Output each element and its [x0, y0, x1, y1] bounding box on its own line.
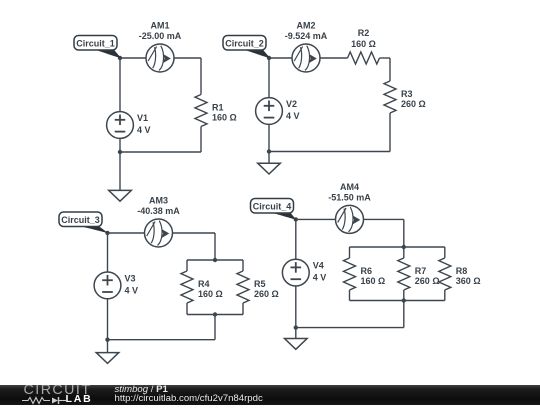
wire — [186, 260, 188, 271]
voltage source V1 — [107, 112, 151, 139]
wire — [173, 232, 216, 234]
CircuitLab logo — [24, 385, 99, 396]
svg-text:4 V: 4 V — [286, 111, 300, 121]
ground — [258, 163, 281, 174]
resistor R1 — [195, 95, 237, 127]
wire — [186, 303, 188, 315]
svg-text:260 Ω: 260 Ω — [415, 276, 440, 286]
wire — [403, 290, 405, 301]
svg-text:AM1: AM1 — [150, 21, 169, 31]
wire — [350, 246, 445, 248]
svg-text:V2: V2 — [286, 99, 297, 109]
wire — [295, 219, 297, 259]
wire — [349, 290, 351, 301]
ground — [96, 353, 119, 364]
svg-text:AM4: AM4 — [340, 182, 359, 192]
wire — [200, 127, 202, 153]
node Circuit_3 anchor — [105, 231, 109, 235]
wire — [403, 301, 405, 328]
node R4R5 top junction — [213, 258, 217, 262]
wire — [187, 314, 243, 316]
node flag Circuit_1 — [74, 36, 121, 59]
wire — [119, 152, 121, 190]
wire — [242, 260, 244, 271]
svg-text:160 Ω: 160 Ω — [198, 289, 223, 299]
LAB text — [66, 395, 93, 405]
wire — [108, 232, 145, 234]
wire — [107, 299, 109, 340]
node V4- junction — [294, 325, 298, 329]
svg-text:-25.00 mA: -25.00 mA — [139, 31, 182, 41]
wire — [296, 218, 336, 220]
svg-text:-9.524 mA: -9.524 mA — [285, 31, 328, 41]
wire — [107, 233, 109, 272]
wire — [269, 57, 292, 59]
node flag Circuit_3 — [59, 212, 108, 233]
svg-text:R7: R7 — [415, 266, 427, 276]
voltage source V3 — [94, 272, 138, 299]
voltage source V4 — [282, 259, 326, 286]
wire — [349, 247, 351, 258]
svg-text:4 V: 4 V — [125, 285, 139, 295]
node Circuit_2 anchor — [267, 56, 271, 60]
resistor R5 — [237, 271, 279, 303]
wire — [269, 151, 390, 153]
wire — [444, 247, 446, 258]
svg-text:V1: V1 — [137, 113, 148, 123]
svg-text:R3: R3 — [401, 89, 413, 99]
wire — [389, 58, 391, 81]
node Circuit_1 anchor — [118, 56, 122, 60]
node R7 top junction — [402, 245, 406, 249]
wire — [268, 152, 270, 164]
svg-text:Circuit_2: Circuit_2 — [225, 38, 264, 48]
node R4R5 bottom junction — [213, 312, 217, 316]
svg-text:Circuit_1: Circuit_1 — [76, 38, 115, 48]
resistor R2 — [348, 28, 380, 64]
ammeter AM1 — [139, 21, 182, 73]
ground — [285, 339, 308, 350]
wire — [320, 57, 348, 59]
svg-text:360 Ω: 360 Ω — [456, 276, 481, 286]
ground — [109, 190, 132, 201]
wire — [214, 233, 216, 260]
svg-text:260 Ω: 260 Ω — [401, 99, 426, 109]
svg-text:AM2: AM2 — [296, 21, 315, 31]
wire — [403, 219, 405, 247]
wire — [187, 259, 243, 261]
wire — [107, 340, 109, 353]
svg-text:Circuit_4: Circuit_4 — [253, 201, 292, 211]
wire — [296, 327, 404, 329]
svg-text:R4: R4 — [198, 279, 210, 289]
wire — [389, 113, 391, 152]
svg-text:160 Ω: 160 Ω — [351, 39, 376, 49]
wire — [119, 58, 121, 112]
wire — [403, 247, 405, 258]
resistor R8 — [439, 258, 481, 290]
node V1- junction — [118, 150, 122, 154]
svg-text:160 Ω: 160 Ω — [361, 276, 386, 286]
wire — [444, 290, 446, 301]
title line — [115, 386, 168, 395]
wire — [119, 138, 121, 152]
svg-text:R5: R5 — [254, 279, 266, 289]
svg-text:-40.38 mA: -40.38 mA — [137, 206, 180, 216]
svg-text:-51.50 mA: -51.50 mA — [328, 192, 371, 202]
wire — [174, 57, 201, 59]
ammeter AM2 — [285, 21, 328, 73]
svg-text:AM3: AM3 — [149, 196, 168, 206]
resistor R4 — [181, 271, 223, 303]
wire — [214, 315, 216, 340]
node R7 bottom junction — [402, 298, 406, 302]
svg-text:160 Ω: 160 Ω — [212, 113, 237, 123]
svg-text:4 V: 4 V — [313, 273, 327, 283]
node V2- junction — [267, 149, 271, 153]
wire — [268, 124, 270, 151]
svg-text:V4: V4 — [313, 261, 324, 271]
wire — [295, 328, 297, 339]
svg-text:R2: R2 — [358, 28, 370, 38]
resistor R6 — [344, 258, 386, 290]
wire — [108, 339, 216, 341]
svg-text:Circuit_3: Circuit_3 — [61, 215, 100, 225]
svg-text:V3: V3 — [125, 273, 136, 283]
wire — [364, 218, 404, 220]
svg-text:R8: R8 — [456, 266, 468, 276]
wire — [295, 286, 297, 328]
node flag Circuit_2 — [223, 36, 270, 59]
wire — [120, 151, 201, 153]
svg-text:260 Ω: 260 Ω — [254, 289, 279, 299]
ammeter AM3 — [137, 196, 180, 248]
svg-text:R1: R1 — [212, 103, 224, 113]
svg-text:R6: R6 — [361, 266, 373, 276]
wire — [242, 303, 244, 315]
wire — [380, 57, 391, 59]
resistor R3 — [384, 81, 426, 113]
voltage source V2 — [256, 98, 300, 125]
wire — [268, 58, 270, 98]
svg-text:4 V: 4 V — [137, 125, 151, 135]
resistor R7 — [398, 258, 440, 290]
node V3- junction — [105, 338, 109, 342]
wire — [350, 300, 445, 302]
ammeter AM4 — [328, 182, 371, 234]
wire — [120, 57, 146, 59]
node Circuit_4 anchor — [294, 217, 298, 221]
url line — [115, 395, 263, 404]
node flag Circuit_4 — [251, 199, 297, 220]
wire — [200, 58, 202, 95]
logo resistor+diode glyph — [22, 396, 68, 405]
